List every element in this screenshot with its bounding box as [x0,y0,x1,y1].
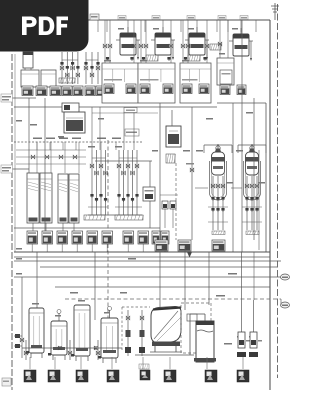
instrument chip R3 [212,240,225,251]
equipment label E7 [237,370,249,382]
tall tank pair TK2 [58,174,68,223]
hatched box under M2 [166,154,175,163]
bottom vessel B3 [74,305,90,356]
top frame tag 5 [240,16,248,20]
dashed distribution line [14,141,142,143]
header drop line [240,20,242,32]
drop 1 [36,252,38,308]
equipment label E4 [107,370,119,382]
top frame tag 4 [218,16,226,20]
dist drop 2 [49,142,51,150]
drop 3 [159,252,161,312]
pipe mesh above tanks [16,149,86,151]
tiny label 28 [120,292,127,294]
tiny label 24 [258,182,265,184]
dashed bus line [65,298,281,300]
bottom pipe 1 [22,347,122,349]
label leader [80,357,82,369]
valve stems T2 [61,52,63,84]
header drop line [255,20,257,32]
chips T1 [22,86,33,96]
flow arrow on bus [187,252,192,258]
column unit C1 [216,146,220,150]
instrument chip R2 [178,240,191,251]
equipment label E6 [205,370,217,382]
drop 2 [94,252,96,320]
dist drop 5 [100,142,102,150]
tank B6 [196,321,214,362]
tiny label 3 [182,60,189,62]
dist tag 5 [97,138,106,140]
bus line 2 [14,256,270,258]
label leader [54,357,56,369]
margin note box 1 [1,94,13,102]
PDF badge letter P [22,17,37,36]
left drain pipe [21,277,23,358]
pump pair B7 [241,310,243,332]
bottom vessel B1 [29,308,44,353]
valve stem pair before B5 [122,306,150,308]
label leader [242,357,244,369]
tiny label 26 [128,258,136,260]
tiny label 30 [246,112,253,114]
tank T1a [21,70,39,87]
tiny label 6 [153,28,159,30]
dist tag 2 [46,138,55,140]
center dashed line [107,140,109,332]
equipment label E8 [140,370,150,380]
dist tag 3 [59,138,68,140]
bottom vessel B4 [101,318,118,358]
label leader [206,357,208,369]
dist drop 4 [75,142,77,150]
top-right connector flag [274,3,276,20]
vessel T1 [23,52,33,68]
header drop line [127,20,129,32]
process tank T5 [140,20,142,63]
top frame tag 3 [187,16,195,20]
dist drop 3 [62,142,64,150]
feed pipe to B6 [189,314,191,355]
header drop line [216,20,218,32]
header drop line [196,20,198,32]
tiny label 9 [88,146,95,148]
bottom pipe 2 [135,354,194,356]
tiny label 27 [70,292,78,294]
label leader [142,357,144,369]
left feed riser [28,98,30,173]
tiny label 17 [55,315,61,317]
riser box [124,108,137,113]
tank T7 [219,20,221,58]
reactor vessel V4 [127,27,129,33]
tiny label 32 [98,118,104,120]
mid vessel M1 [64,112,85,133]
valve manifold [160,194,178,196]
tall tank pair TK1 [27,173,39,223]
tiny label 16 [32,303,39,305]
tiny label 5 [118,28,124,30]
tiny label 29 [224,343,232,345]
header drop line [73,20,75,32]
bus line 5 [14,276,281,278]
box in dashed zone [187,314,197,321]
instrument chip L2 [42,231,53,244]
bus tag 2 [216,295,225,297]
small pump box [143,187,155,201]
instrument chip L5 [87,231,98,244]
PDF badge plate [0,0,89,52]
mid risers [91,107,93,150]
margin note box 2 [1,165,13,173]
header drop line [106,20,108,32]
label leader [169,357,171,369]
riser E [241,20,243,252]
header drop line [227,20,229,32]
bus line 1 [14,251,270,253]
chips row line [14,227,160,229]
instrument chip L3 [57,231,68,244]
mid vessel M2 [166,126,181,147]
tiny label 7 [188,28,194,30]
drain valve cluster [97,340,99,360]
hatched cap above E8 [139,364,149,369]
equipment label E1 [24,370,36,382]
tank T1b [41,70,56,87]
riser A [44,98,46,231]
tiny label 2 [140,60,147,62]
drop 5 [208,252,210,305]
bus line 4 [40,266,277,268]
header drop line [144,20,146,32]
bus tag 1 [228,273,237,275]
tiny label 22 [16,273,22,275]
hatch label V7 [210,44,221,50]
top frame tag 2 [152,16,160,20]
tiny label 14 [16,120,22,122]
mid cross line [95,160,152,162]
dashed drop to flag2 [280,299,282,305]
tiny label 21 [16,258,22,260]
tiny label 8 [232,28,238,30]
instrument chip L1 [27,231,38,244]
PDF badge letter F [57,17,69,36]
drain valve cluster [69,340,71,360]
equipment label E5 [164,370,176,382]
drop 4 [184,247,186,310]
tiny label 15 [30,124,37,126]
left inner border [14,54,16,252]
tiny label 10 [115,146,122,148]
dashed riser [175,163,177,240]
tiny label 23 [226,182,233,184]
cluster pipes [88,206,108,208]
instrument chip M3 [152,231,160,244]
margin connector 1 [13,97,37,99]
header drop line [180,20,182,32]
riser F [253,98,255,240]
hatch label V6 [188,55,200,61]
collector line B [217,102,266,104]
column unit C2 [250,146,254,150]
offsheet flag 1 [281,274,290,280]
margin connector 2 [13,168,30,170]
dist tag 1 [33,138,42,140]
collector line A [14,106,217,108]
dist tag 6 [112,138,121,140]
bottom vessel B2 [51,321,67,355]
tiny label 31 [206,118,213,120]
reactor vessel V5 [162,27,164,33]
instrument chip M1 [123,231,134,244]
tiny label 13 [236,150,243,152]
tiny label 12 [196,150,203,152]
PDF badge letter D [39,17,55,36]
chips T3 [85,86,95,96]
header drop line [97,20,99,32]
label leader [111,357,113,369]
hatched platform 2 [115,215,143,220]
dist drop 6 [115,142,117,150]
mid pump M1 motor [62,103,79,112]
T7 lower box [220,70,232,84]
tiny label 4 [219,53,225,55]
riser C2 [191,107,193,240]
collector line C [92,112,158,114]
chips T7 [220,85,230,95]
right dash-dot margin line [277,4,279,378]
bus line 3 [14,260,281,262]
offsheet flag 2 [281,302,290,308]
instrument chip R1 [155,240,168,251]
tiny label 11 [152,150,158,152]
dist tag 4 [72,138,81,140]
riser G [258,150,260,250]
instrument chip M2 [138,231,149,244]
header drop line [44,20,46,32]
instrument chip L6 [102,231,113,244]
chip leaders [31,244,33,252]
mid label box [125,129,139,136]
hatch label T2 [59,78,75,83]
instrument chip L4 [72,231,83,244]
process tank T4 [104,20,106,63]
drop 6 [241,252,243,310]
header drop line [85,20,87,32]
drain valve cluster [25,340,27,360]
tiny label 18 [78,300,85,302]
equipment label E3 [76,370,88,382]
bottom valves on pipe [58,346,62,350]
dist drop 1 [36,142,38,150]
equipment label E2 [48,370,60,382]
column link line [195,187,208,189]
hatch label V5 [146,55,158,61]
dashed enclosure [181,303,211,353]
drawing frame top line [14,19,270,21]
reactor vessel V7 [240,28,242,34]
bus line 6 [55,286,270,288]
right border line [269,20,271,390]
reactor vessel V6 [196,27,198,33]
right elbow riser [265,103,267,252]
valve stems S2 [118,150,120,215]
chips T2 [62,86,72,96]
riser C [159,103,161,240]
left dash-dot margin line [11,54,13,390]
label leader [29,357,31,369]
badge-edge box [90,14,99,20]
tiny label 19 [104,312,110,314]
valve stems T3 [85,52,87,84]
top frame tag 1 [118,16,126,20]
hatched platform 1 [84,215,105,220]
valve stems S1 [91,150,93,215]
tiny label 33 [58,136,64,138]
riser D [232,103,234,252]
scroll housing B5 [151,307,181,344]
tiny label 25 [183,150,190,152]
tiny label 1 [104,60,111,62]
tiny label 20 [16,248,22,250]
header drop line [61,20,63,32]
process tank T6 [182,20,184,63]
header drop line [162,20,164,32]
bottom-left margin box [2,378,11,386]
